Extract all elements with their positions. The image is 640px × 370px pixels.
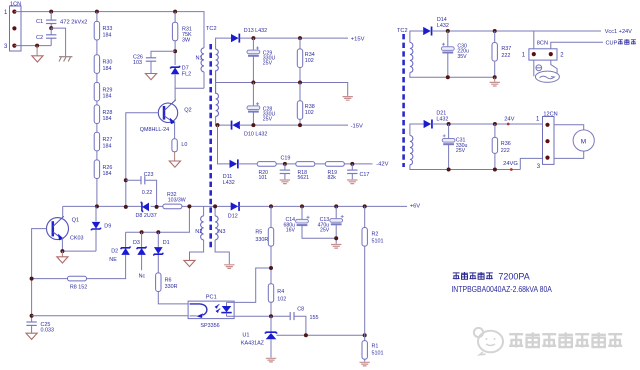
wire R34 stems — [299, 38, 301, 82]
node junction ground stem — [35, 44, 39, 48]
svg-text:D8 2U37: D8 2U37 — [136, 213, 157, 219]
node junction N3 top — [213, 204, 217, 208]
capacitor C28 330U 25V — [247, 102, 275, 122]
capacitor C2 — [36, 35, 56, 41]
svg-text:D1: D1 — [163, 240, 170, 246]
node junction C1-C2 — [49, 26, 53, 30]
wire R38 stems — [299, 83, 301, 126]
wire +15V rail — [240, 37, 348, 39]
connector 8CN — [529, 40, 557, 60]
winding N3 — [215, 216, 225, 240]
svg-text:CUP: CUP — [606, 41, 618, 47]
node junction C13 top — [334, 204, 338, 208]
wire C13 stems — [335, 206, 337, 243]
resistor R18 5621 — [296, 162, 315, 181]
transistor Q2 QM8HLL-24 — [140, 100, 192, 133]
svg-text:102: 102 — [305, 58, 314, 64]
svg-text:L432: L432 — [437, 23, 449, 29]
fan symbol — [535, 71, 559, 82]
winding TC2 right upper — [410, 43, 413, 73]
svg-text:R1: R1 — [372, 343, 379, 349]
wire ground stem — [36, 46, 38, 56]
svg-text:R27: R27 — [103, 137, 113, 143]
svg-text:12CN: 12CN — [543, 112, 557, 118]
pin 1 of 1CN — [4, 10, 17, 17]
svg-text:0.22: 0.22 — [142, 190, 153, 196]
node junction D1 top — [156, 230, 160, 234]
svg-text:C8: C8 — [297, 306, 304, 312]
wire C19 stem — [284, 164, 286, 179]
svg-text:TC2: TC2 — [397, 28, 408, 34]
resistor R32 103/3W — [163, 192, 186, 209]
node junction bottom rail left — [30, 314, 34, 318]
node junction R36 top — [493, 122, 497, 126]
transformer TC2 right core — [402, 34, 405, 167]
wire top rail from 1CN pin1 to transformer primary — [14, 12, 204, 48]
connector 12CN — [543, 112, 558, 165]
node junction C13 C14 tie — [334, 236, 338, 240]
diode D11 L432 — [223, 159, 239, 186]
svg-text:CK03: CK03 — [70, 235, 84, 241]
svg-text:35V: 35V — [457, 54, 467, 60]
node junction C19 — [283, 162, 287, 166]
wire secondary center tap — [216, 82, 254, 84]
resistor R28 184 — [94, 105, 112, 124]
ground bars under C13 — [331, 245, 341, 249]
wire D2 bottom to R8 row — [32, 255, 126, 279]
zener diode D7 FL2 — [171, 65, 191, 77]
diode D21 L432 — [424, 110, 449, 128]
capacitor C29 330U 25V — [247, 46, 275, 66]
svg-text:R33: R33 — [103, 26, 113, 32]
svg-text:3W: 3W — [182, 38, 191, 44]
pin 2 of 1CN — [12, 26, 16, 30]
wire C25 ground stem — [31, 325, 33, 333]
pin 2 of 12CN — [545, 139, 549, 143]
svg-text:N2: N2 — [195, 229, 202, 235]
wire L0 to ground — [174, 152, 176, 161]
wire 24VG step — [520, 158, 542, 169]
diode D14 L432 — [423, 17, 449, 35]
winding N1 primary — [196, 48, 205, 72]
svg-text:R8 152: R8 152 — [70, 285, 87, 291]
svg-text:M: M — [581, 139, 586, 146]
motor M — [573, 130, 594, 151]
wire C26 branch — [151, 51, 175, 73]
node junction R38 bottom — [298, 123, 302, 127]
resistor R27 184 — [94, 132, 112, 151]
ground bars mid rail — [343, 97, 353, 101]
svg-text:D11: D11 — [223, 174, 233, 180]
pin 2 of 8CN — [549, 52, 565, 58]
wire U1 ground stem — [270, 340, 272, 358]
diode D10 L432 — [231, 121, 268, 138]
resistor R4 102 — [268, 284, 286, 303]
wire N2 bottom to ground — [190, 240, 204, 260]
node junction R32 right — [187, 204, 191, 208]
node junction Q1 emitter — [60, 249, 64, 253]
ground triangle under N2 — [184, 260, 195, 266]
node junction C23 left — [124, 178, 128, 182]
wire Q1 emitter — [62, 238, 96, 251]
resistor R33 184 — [94, 21, 112, 40]
svg-text:184: 184 — [103, 116, 112, 122]
capacitor C1 — [36, 19, 56, 25]
svg-text:R2: R2 — [372, 231, 379, 237]
ground bars under C17 — [347, 180, 357, 184]
node junction C29 top — [251, 36, 255, 40]
svg-text:25V: 25V — [456, 148, 466, 154]
wire R31-D7 vertical — [174, 12, 176, 100]
wire secondary top lead — [216, 38, 232, 49]
svg-text:C17: C17 — [360, 172, 370, 178]
svg-text:L432: L432 — [223, 180, 235, 186]
wire D1 stems — [157, 232, 159, 273]
watermark text inverter repair forum — [509, 332, 622, 347]
node junction C17 — [350, 162, 354, 166]
wire ground stem — [494, 77, 496, 81]
ground triangle under C26 — [145, 74, 156, 80]
svg-text:U1: U1 — [242, 332, 249, 338]
svg-text:8CN: 8CN — [537, 40, 548, 46]
node junction chain bottom — [95, 204, 99, 208]
svg-text:5101: 5101 — [372, 239, 384, 245]
wire Vcc1 rail — [432, 30, 601, 32]
svg-text:TC2: TC2 — [206, 26, 217, 32]
wire Q2 emitter to L0 — [174, 121, 176, 138]
capacitor C30 220u 35V — [441, 43, 469, 60]
capacitor C23 0.22 — [141, 172, 153, 196]
svg-text:184: 184 — [103, 32, 112, 38]
node junction R37 top — [493, 29, 497, 33]
capacitor C13 470u 25V — [318, 215, 344, 234]
wire divider vertical — [364, 206, 366, 361]
transformer TC2 core — [209, 44, 212, 250]
wire C23 branch — [126, 180, 157, 207]
svg-text:Q1: Q1 — [72, 217, 79, 223]
resistor R2 5101 — [362, 228, 384, 247]
wire D2 stem top — [125, 232, 127, 247]
svg-text:184: 184 — [103, 94, 112, 100]
wire 8CN pin2 to fan — [551, 60, 557, 73]
wire left mid rail — [63, 206, 231, 232]
svg-text:5621: 5621 — [298, 175, 310, 181]
svg-text:5101: 5101 — [372, 351, 384, 357]
svg-text:-15V: -15V — [351, 124, 363, 130]
svg-text:PC1: PC1 — [206, 295, 217, 301]
node junction R36 bottom — [493, 168, 497, 172]
wire 12CN to motor top — [554, 125, 584, 130]
node junction D8-R32 — [155, 205, 159, 209]
svg-text:R28: R28 — [103, 110, 113, 116]
node junction C31 bottom — [447, 168, 451, 172]
diode D12 — [228, 202, 240, 220]
resistor R34 102 — [297, 49, 314, 68]
svg-text:222: 222 — [501, 53, 510, 59]
node junction R37 bottom — [493, 75, 497, 79]
node junction C14 top — [300, 204, 304, 208]
svg-text:C23: C23 — [144, 172, 154, 178]
svg-text:24VG: 24VG — [503, 161, 518, 167]
wire R37 stems — [494, 31, 496, 77]
diode D13 L432 — [231, 28, 267, 43]
zener diode D1 — [154, 240, 170, 255]
svg-text:R30: R30 — [103, 60, 113, 66]
capacitor C8 155 — [290, 306, 318, 321]
wire to chassis ground — [51, 28, 65, 56]
wire D9 stems — [95, 206, 97, 251]
svg-text:N3: N3 — [218, 229, 225, 235]
svg-text:D9: D9 — [104, 224, 111, 230]
wire R6 branch — [158, 291, 188, 304]
wire secondary bottom lead — [216, 116, 231, 125]
node junction C28 bottom — [251, 123, 255, 127]
capacitor C26 103 — [133, 55, 156, 66]
ground triangle under L0 — [169, 161, 180, 167]
capacitor C14 680u 16V — [283, 216, 309, 234]
svg-text:R26: R26 — [103, 165, 113, 171]
svg-text:Nc: Nc — [139, 273, 146, 279]
svg-text:24V: 24V — [504, 116, 514, 122]
wire Q2 base — [126, 113, 159, 207]
resistor R19 82k — [325, 162, 344, 181]
svg-text:SP3356: SP3356 — [200, 323, 219, 329]
wire C1 stem — [50, 12, 52, 29]
node junction R34 bottom — [298, 81, 302, 85]
wire emitter ground stem — [61, 251, 63, 257]
wire 12CN to motor bottom — [554, 151, 584, 158]
node junction C30 top — [446, 29, 450, 33]
node marker 24V — [507, 123, 510, 126]
svg-text:102: 102 — [305, 110, 314, 116]
resistor R26 184 — [94, 160, 112, 179]
svg-text:C19: C19 — [281, 156, 291, 162]
wire CUP control line — [551, 42, 603, 49]
svg-text:R6: R6 — [165, 277, 172, 283]
svg-text:D10 L432: D10 L432 — [244, 131, 267, 137]
svg-text:330R: 330R — [165, 284, 178, 290]
watermark logo — [474, 328, 503, 355]
title line 1: Dongyuan inverter 7200PA — [453, 272, 530, 282]
svg-text:D12: D12 — [228, 213, 238, 219]
svg-text:R29: R29 — [103, 87, 113, 93]
svg-text:184: 184 — [103, 143, 112, 149]
zener diode D2 — [111, 246, 130, 255]
zener diode D8 2U37 — [136, 202, 157, 219]
svg-text:330R: 330R — [255, 237, 268, 243]
ground bars under U1 — [266, 358, 276, 362]
connector 1CN — [10, 2, 22, 52]
svg-text:R4: R4 — [277, 289, 284, 295]
wire 24V rail — [432, 123, 542, 125]
pin 3 of 1CN — [4, 44, 17, 51]
thermostat symbol — [536, 65, 542, 71]
svg-text:222: 222 — [501, 148, 510, 154]
wire C30 stems — [447, 31, 449, 77]
svg-text:FL2: FL2 — [182, 72, 191, 78]
ground bars under R37 — [490, 82, 500, 86]
node junction D11 branch — [216, 123, 220, 127]
resistor R29 184 — [94, 82, 112, 101]
node junction R34 top — [298, 36, 302, 40]
transistor Q1 CK03 — [47, 216, 84, 241]
node junction C26 tap — [173, 49, 177, 53]
pin 1 of 12CN — [536, 117, 550, 127]
wire 8CN pin1 vertical — [533, 31, 535, 76]
svg-text:KA431AZ: KA431AZ — [241, 341, 265, 347]
resistor R8 152 — [68, 276, 88, 290]
svg-text:QM8HLL-24: QM8HLL-24 — [140, 127, 169, 133]
ground bars under R1 — [360, 362, 370, 366]
wire C2 stems — [14, 28, 51, 45]
svg-text:103: 103 — [133, 60, 142, 66]
wire -42V row — [238, 163, 372, 165]
node junction divider mid — [363, 333, 367, 337]
wire C28 stems — [252, 83, 254, 126]
svg-text:Vcc1 +24V: Vcc1 +24V — [605, 29, 632, 35]
svg-text:R36: R36 — [501, 141, 511, 147]
svg-text:472 2kVx2: 472 2kVx2 — [60, 20, 87, 26]
wire Q1 base — [32, 229, 47, 322]
resistor R30 184 — [94, 55, 112, 74]
node junction C1 top — [49, 10, 53, 14]
resistor R1 5101 — [362, 341, 384, 360]
wire C31 stems — [448, 124, 450, 170]
svg-text:L432: L432 — [436, 116, 448, 122]
wire C14 stems — [302, 206, 336, 238]
svg-text:7200PA: 7200PA — [498, 272, 529, 282]
node junction R8 row left — [30, 277, 34, 281]
resistor R38 102 — [297, 101, 314, 120]
wire primary return node — [175, 72, 204, 88]
node junction D3 top — [140, 230, 144, 234]
pin 3 of 12CN — [537, 156, 550, 171]
node junction R5 top — [269, 204, 273, 208]
wire lower winding leads — [410, 124, 520, 170]
resistor R37 222 — [492, 43, 511, 62]
svg-text:D3: D3 — [133, 240, 140, 246]
svg-text:R37: R37 — [501, 46, 511, 52]
wire bottom rail — [32, 316, 306, 336]
wire R36 stems — [494, 124, 496, 170]
wire U1 reference row — [277, 334, 365, 336]
svg-text:184: 184 — [103, 66, 112, 72]
winding TC2 right lower — [410, 136, 413, 165]
svg-text:R5: R5 — [255, 230, 262, 236]
optocoupler PC1 SP3356 — [188, 295, 234, 330]
svg-text:16V: 16V — [286, 228, 296, 234]
svg-text:102: 102 — [277, 296, 286, 302]
label CUP board control — [606, 39, 636, 47]
resistor R31 75K 3W — [172, 22, 192, 44]
node junction R4 branch — [269, 266, 273, 270]
resistor R5 330R — [255, 228, 273, 247]
shunt regulator U1 KA431AZ — [241, 316, 277, 347]
svg-text:D2: D2 — [111, 249, 118, 255]
zener diode D3 — [133, 240, 146, 255]
wire resistor chain verticals — [96, 12, 98, 207]
svg-text:1CN: 1CN — [10, 2, 21, 8]
svg-text:D7: D7 — [182, 65, 189, 71]
svg-text:25V: 25V — [263, 60, 273, 66]
wire D3 stems — [141, 232, 143, 270]
svg-text:D13 L432: D13 L432 — [244, 28, 267, 34]
svg-text:+15V: +15V — [351, 37, 365, 43]
svg-text:101: 101 — [259, 175, 268, 181]
node marker 24VG — [510, 168, 513, 171]
wire C29 stems — [252, 38, 254, 82]
winding secondary upper half — [216, 49, 219, 116]
capacitor C25 0.033 — [26, 322, 54, 333]
chassis ground — [59, 57, 72, 62]
ground triangle under C25 — [26, 333, 37, 339]
node junction D8 left — [124, 205, 128, 209]
inductor L0 — [172, 139, 188, 152]
wire upper winding leads — [410, 31, 495, 77]
wire Q1 collector — [62, 206, 64, 217]
svg-text:L0: L0 — [181, 142, 187, 148]
winding N2 — [195, 216, 203, 240]
svg-text:INTPBGBA0040AZ-2.68kVA 80A: INTPBGBA0040AZ-2.68kVA 80A — [451, 284, 552, 294]
ground bars under C19 — [280, 180, 290, 184]
svg-text:N1: N1 — [196, 55, 203, 61]
ground triangle under Q1 — [57, 257, 68, 263]
svg-text:25V: 25V — [320, 228, 330, 234]
svg-text:103/3W: 103/3W — [168, 197, 186, 203]
ground bars under N3 — [224, 265, 234, 269]
node junction C30 bottom — [446, 75, 450, 79]
capacitor C17 — [347, 170, 369, 178]
svg-text:0.033: 0.033 — [41, 327, 55, 333]
node junction U1 top — [269, 314, 273, 318]
svg-text:C2: C2 — [36, 35, 43, 41]
wire N3 bottom to ground — [215, 240, 229, 264]
resistor R36 222 — [492, 137, 510, 153]
svg-text:184: 184 — [103, 171, 112, 177]
svg-text:25V: 25V — [263, 116, 273, 122]
node junction C29 bottom — [251, 81, 255, 85]
wire 0V mid rail — [216, 83, 348, 96]
capacitor C31 330u 25V — [442, 134, 467, 154]
wire C17 stem — [351, 164, 353, 179]
wire D11 branch — [218, 125, 230, 164]
svg-text:C1: C1 — [36, 19, 43, 25]
pin 1 of 8CN — [522, 52, 536, 58]
resistor R6 330R — [156, 273, 178, 292]
svg-text:Q2: Q2 — [184, 107, 191, 113]
ground triangle — [32, 56, 43, 62]
svg-text:+6V: +6V — [410, 204, 421, 210]
svg-text:82k: 82k — [328, 175, 337, 181]
resistor R20 101 — [257, 162, 276, 181]
zener diode D9 — [92, 222, 112, 231]
node junction C8 right — [304, 333, 308, 337]
svg-text:-42V: -42V — [376, 162, 388, 168]
wire PC1 led anode branch — [227, 268, 272, 302]
node junction R2 top — [363, 204, 367, 208]
svg-text:155: 155 — [310, 315, 319, 321]
node junction R31 top — [173, 10, 177, 14]
wire +6V rail — [239, 205, 407, 207]
node junction C31 top — [447, 122, 451, 126]
wire R5-R4 vertical — [270, 206, 272, 316]
svg-text:NE: NE — [109, 257, 117, 263]
wire -15V rail — [239, 124, 348, 126]
node junction R33 top — [95, 10, 99, 14]
capacitor C19 — [280, 156, 291, 174]
